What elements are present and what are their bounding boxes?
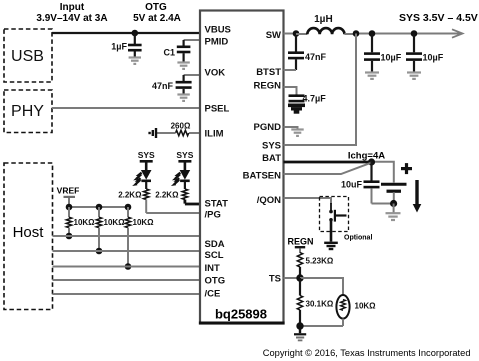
svg-text:47nF: 47nF — [305, 52, 327, 62]
LED D2 — [171, 170, 190, 189]
svg-text:SDA: SDA — [205, 239, 225, 250]
svg-text:VREF: VREF — [57, 186, 80, 196]
svg-text:BAT: BAT — [262, 153, 281, 164]
svg-text:REGN: REGN — [254, 81, 282, 92]
wire PGND — [284, 127, 298, 129]
svg-text:ILIM: ILIM — [205, 129, 224, 140]
capacitor 4.7uF — [289, 94, 327, 104]
ground TS — [294, 326, 306, 340]
wire STAT — [185, 203, 200, 206]
svg-text:C1: C1 — [163, 48, 175, 58]
block USB — [4, 29, 52, 82]
svg-text:TS: TS — [269, 274, 281, 285]
svg-text:4.7µF: 4.7µF — [303, 94, 327, 104]
svg-text:10µF: 10µF — [381, 53, 402, 63]
capacitor 10uF sys 1 — [364, 34, 402, 73]
svg-text:VBUS: VBUS — [205, 25, 231, 36]
ground PGND — [291, 130, 303, 136]
resistor 260ohm ILIM — [157, 122, 201, 136]
svg-text:SYS 3.5V – 4.5V: SYS 3.5V – 4.5V — [399, 12, 478, 24]
resistor 30.1k — [297, 278, 334, 326]
wire VBUS input rail — [52, 32, 200, 34]
svg-text:30.1KΩ: 30.1KΩ — [306, 300, 334, 309]
svg-text:Optional: Optional — [344, 235, 372, 242]
svg-text:10KΩ: 10KΩ — [74, 218, 96, 227]
wire PMID — [184, 39, 200, 41]
node SDA pullup — [66, 233, 73, 240]
capacitor 47nF VOK — [152, 75, 192, 94]
svg-text:BATSEN: BATSEN — [243, 171, 281, 182]
svg-text:VOK: VOK — [205, 68, 226, 79]
svg-text:2.2KΩ: 2.2KΩ — [118, 191, 142, 200]
wire BAT — [284, 161, 373, 164]
svg-text:1µH: 1µH — [314, 14, 333, 25]
capacitor 10uF BAT — [341, 162, 380, 204]
svg-text:5.23KΩ: 5.23KΩ — [306, 257, 334, 266]
wire /QON — [284, 198, 332, 204]
LED D1 — [132, 170, 151, 189]
label OTG — [133, 2, 181, 24]
node 10uF-2 — [411, 30, 418, 37]
resistor 10k pullup 3 — [125, 207, 154, 267]
svg-text:Host: Host — [13, 224, 45, 241]
thermistor 10k — [336, 295, 376, 326]
wire BATSEN — [284, 163, 372, 174]
wire PSEL — [52, 107, 200, 109]
arrow SYS rail — [452, 29, 463, 37]
wire /PG — [146, 212, 200, 214]
wire REGN — [284, 87, 297, 95]
ground C1 — [177, 63, 189, 69]
svg-text:/CE: /CE — [205, 289, 221, 300]
label Input — [36, 2, 107, 24]
svg-text:Copyright © 2016, Texas Instru: Copyright © 2016, Texas Instruments Inco… — [263, 348, 471, 358]
ground 10uF sys 1 — [365, 73, 379, 79]
svg-text:STAT: STAT — [205, 199, 229, 210]
node VREF — [57, 186, 80, 208]
box optional — [320, 197, 349, 232]
svg-text:PMID: PMID — [205, 37, 229, 48]
battery BT1 — [381, 184, 407, 212]
node SCL pullup — [96, 248, 103, 255]
wire SYS rail — [356, 33, 460, 35]
block PHY — [4, 90, 52, 133]
wire SCL — [53, 250, 201, 252]
svg-text:10uF: 10uF — [341, 180, 363, 190]
op-amp U1 bq25898 IC body — [199, 11, 285, 324]
ground 47nF VOK — [177, 95, 189, 101]
svg-text:SYS: SYS — [138, 150, 155, 160]
capacitor 1uF — [111, 33, 141, 57]
svg-text:2.2KΩ: 2.2KΩ — [155, 191, 179, 200]
resistor 10k pullup 2 — [96, 207, 125, 251]
svg-text:Input: Input — [60, 2, 85, 13]
ground battery — [386, 213, 401, 220]
node VBUS/1uF junction — [132, 30, 139, 37]
wire SDA — [53, 235, 201, 237]
wire /CE — [53, 293, 201, 295]
node SYS rail LED1 — [138, 150, 155, 171]
ground 4.7uF solid — [288, 104, 305, 114]
svg-text:3.9V–14V at 3A: 3.9V–14V at 3A — [36, 13, 107, 24]
svg-text:SYS: SYS — [262, 141, 281, 152]
svg-text:SCL: SCL — [205, 250, 224, 261]
capacitor 47nF BTST — [288, 34, 327, 71]
svg-text:OTG: OTG — [145, 2, 167, 13]
ground 1uF — [129, 58, 141, 64]
capacitor C1 — [163, 40, 190, 62]
node SYS riser — [353, 30, 360, 37]
svg-text:PHY: PHY — [11, 103, 44, 120]
node SW/47nF — [293, 30, 300, 37]
svg-text:5V at 2.4A: 5V at 2.4A — [133, 13, 181, 24]
svg-text:10KΩ: 10KΩ — [355, 302, 377, 311]
arrow discharge — [413, 180, 422, 213]
wire TS — [284, 277, 301, 279]
svg-text:SYS: SYS — [176, 150, 193, 160]
label battery plus — [401, 163, 412, 174]
wire OTG — [53, 279, 201, 281]
wire thermistor bottom — [300, 325, 343, 327]
svg-text:10KΩ: 10KΩ — [133, 218, 155, 227]
capacitor 10uF sys 2 — [406, 34, 444, 73]
ground ILIM sideways — [150, 128, 156, 138]
wire INT — [53, 266, 201, 268]
block Host — [4, 163, 53, 310]
node BAT junction — [368, 158, 375, 165]
svg-text:OTG: OTG — [205, 276, 226, 287]
svg-text:PGND: PGND — [254, 122, 282, 133]
wire 10uF to battery — [372, 203, 394, 205]
node TS junction — [296, 274, 303, 281]
inductor L1 1uH — [296, 14, 356, 34]
svg-text:INT: INT — [205, 263, 221, 274]
wire VOK — [184, 74, 200, 76]
resistor 5.23k — [297, 253, 334, 279]
node TS bottom — [296, 322, 303, 329]
svg-text:bq25898: bq25898 — [215, 307, 267, 322]
svg-text:BTST: BTST — [256, 67, 281, 78]
svg-text:1µF: 1µF — [111, 42, 127, 52]
svg-text:/QON: /QON — [257, 195, 281, 206]
svg-text:SW: SW — [266, 30, 281, 41]
node SYS rail LED2 — [176, 150, 193, 171]
svg-text:Ichg=4A: Ichg=4A — [348, 151, 385, 162]
node pullup junctions — [66, 204, 132, 211]
svg-text:10KΩ: 10KΩ — [104, 218, 126, 227]
resistor 10k pullup 1 — [66, 207, 95, 236]
ground 10uF sys 2 — [407, 73, 421, 79]
wire TS to thermistor — [300, 278, 343, 295]
svg-text:/PG: /PG — [205, 210, 221, 221]
switch pushbutton — [329, 203, 346, 242]
resistor 2.2k D1 — [118, 189, 149, 213]
wire SYS pin riser — [284, 34, 357, 146]
node INT pullup — [125, 263, 132, 270]
svg-text:10µF: 10µF — [423, 53, 444, 63]
svg-text:47nF: 47nF — [152, 81, 174, 91]
wire BTST — [284, 69, 297, 71]
resistor 2.2k D2 — [155, 189, 187, 204]
node REGN TS — [287, 237, 313, 253]
wire VREF rail — [69, 206, 128, 208]
svg-text:PSEL: PSEL — [205, 104, 230, 115]
ground pushbutton — [324, 243, 338, 249]
wire SW — [284, 33, 297, 35]
svg-text:USB: USB — [11, 48, 44, 65]
node 10uF-1 — [369, 30, 376, 37]
svg-text:REGN: REGN — [287, 237, 313, 247]
